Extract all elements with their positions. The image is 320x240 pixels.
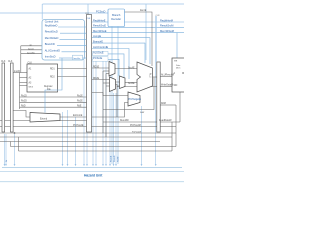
svg-text:FlushE: FlushE — [110, 155, 112, 162]
svg-text:RdM: RdM — [161, 103, 166, 105]
svg-text:RD1: RD1 — [50, 69, 55, 71]
svg-text:BranchD: BranchD — [45, 42, 55, 46]
svg-text:ImmSrcD: ImmSrcD — [45, 55, 56, 59]
svg-text:Branch: Branch — [112, 13, 121, 17]
svg-text:RegWriteM: RegWriteM — [160, 18, 173, 22]
svg-text:RD1E: RD1E — [93, 66, 100, 68]
svg-text:SrcAE: SrcAE — [128, 67, 135, 70]
svg-text:funct7b5: funct7b5 — [27, 51, 36, 54]
svg-text:MemWriteE: MemWriteE — [93, 29, 107, 33]
svg-text:ResultSrcD: ResultSrcD — [45, 30, 58, 34]
svg-text:Rs2E: Rs2E — [77, 101, 83, 103]
svg-text:RdE: RdE — [77, 106, 82, 108]
svg-text:StallD: StallD — [116, 156, 119, 162]
svg-text:PCSrcE: PCSrcE — [93, 56, 102, 60]
svg-text:CLK: CLK — [8, 61, 13, 63]
svg-text:RD2E: RD2E — [93, 78, 100, 80]
svg-text:ResultSrcM: ResultSrcM — [160, 24, 173, 28]
svg-text:Control Unit: Control Unit — [45, 19, 59, 23]
svg-text:ResultSrcE: ResultSrcE — [93, 24, 106, 28]
svg-text:ReadDataW: ReadDataW — [159, 119, 172, 122]
svg-text:JumpE: JumpE — [93, 34, 101, 38]
svg-text:Register: Register — [44, 85, 53, 88]
svg-text:ALUResultM: ALUResultM — [161, 74, 174, 77]
svg-text:CLK: CLK — [1, 61, 6, 63]
svg-text:Decoder: Decoder — [111, 17, 121, 21]
svg-text:RD: RD — [182, 73, 184, 75]
svg-text:PCPlus4E: PCPlus4E — [73, 125, 84, 127]
svg-text:ImmSrc: ImmSrc — [73, 57, 80, 60]
svg-text:MemWriteM: MemWriteM — [160, 29, 174, 33]
svg-text:PCTargetE: PCTargetE — [129, 97, 142, 101]
svg-text:Extend: Extend — [40, 117, 48, 120]
svg-text:ALUControlD: ALUControlD — [45, 48, 60, 52]
svg-text:ExtImmE: ExtImmE — [73, 114, 83, 117]
svg-text:MemWriteD: MemWriteD — [45, 36, 59, 40]
svg-text:RD2: RD2 — [50, 77, 55, 79]
svg-text:RdD: RdD — [21, 106, 26, 108]
svg-text:PCPlus4M: PCPlus4M — [130, 125, 141, 127]
svg-text:CLK: CLK — [28, 63, 33, 65]
svg-text:BranchE: BranchE — [93, 40, 103, 44]
svg-text:PCSrcD: PCSrcD — [96, 10, 105, 14]
svg-text:Mem: Mem — [176, 68, 181, 70]
svg-text:funct3: funct3 — [28, 47, 34, 50]
svg-text:InstrD: InstrD — [14, 70, 20, 73]
svg-text:WD: WD — [174, 85, 178, 87]
svg-text:ALUSrcE: ALUSrcE — [93, 50, 104, 54]
svg-text:CLR: CLR — [156, 15, 161, 17]
svg-text:PCPlus4W: PCPlus4W — [132, 131, 141, 133]
svg-text:Rs2D: Rs2D — [21, 101, 27, 103]
svg-text:CLR: CLR — [85, 13, 90, 15]
svg-text:ZeroE: ZeroE — [140, 9, 147, 12]
svg-text:ALUControlE: ALUControlE — [93, 45, 108, 49]
svg-text:RdW: RdW — [140, 112, 144, 114]
svg-text:RegWriteE: RegWriteE — [93, 18, 106, 22]
svg-text:FlushD: FlushD — [114, 155, 116, 162]
svg-text:ResultW: ResultW — [120, 119, 130, 122]
svg-text:SrcBE: SrcBE — [128, 82, 135, 85]
svg-text:RegWriteD: RegWriteD — [45, 24, 58, 28]
svg-text:ALU: ALU — [149, 73, 152, 78]
svg-text:WriteDataM: WriteDataM — [161, 84, 173, 87]
svg-text:Rs1D: Rs1D — [21, 95, 27, 97]
svg-text:Hazard Unit: Hazard Unit — [84, 174, 103, 178]
svg-text:CLK: CLK — [87, 18, 92, 20]
svg-text:Rs1E: Rs1E — [77, 95, 83, 97]
